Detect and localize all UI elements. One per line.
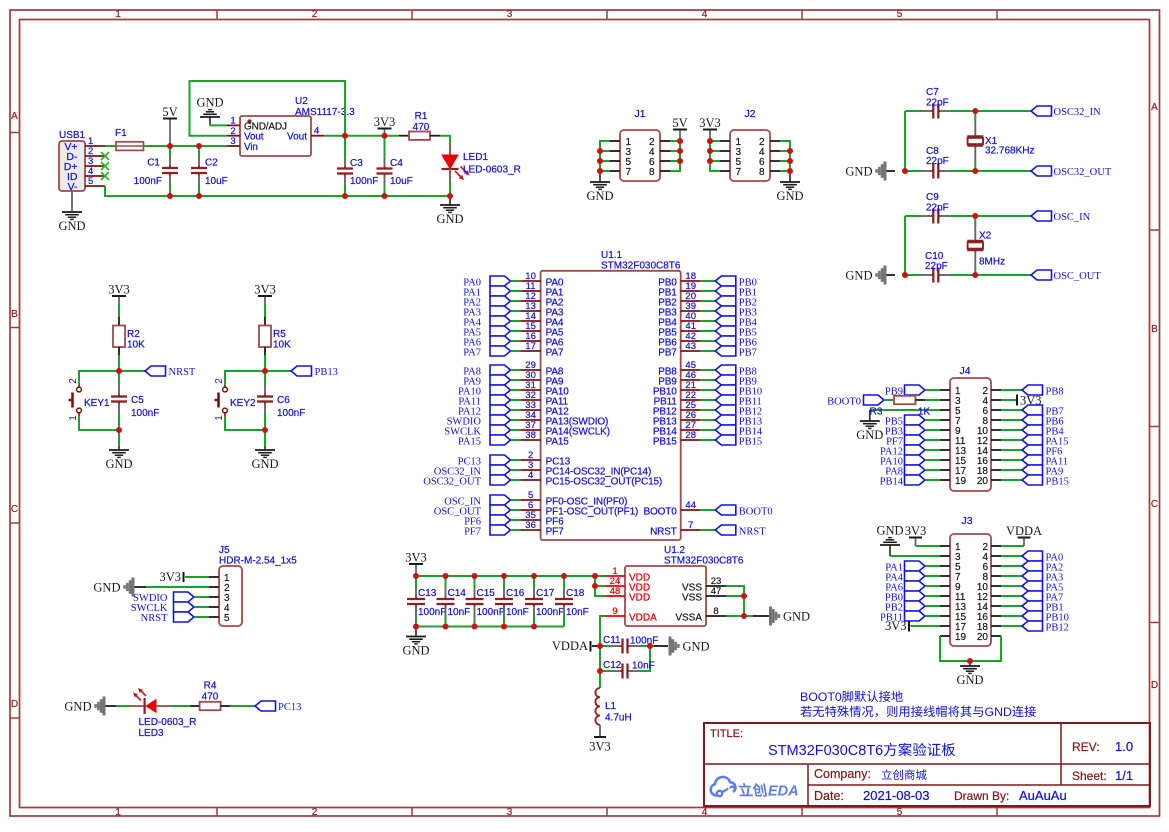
svg-text:R3: R3 <box>870 407 883 418</box>
svg-text:GND: GND <box>876 524 903 538</box>
svg-text:Vin: Vin <box>244 142 258 153</box>
svg-text:7: 7 <box>626 167 632 178</box>
svg-text:C4: C4 <box>390 158 403 169</box>
svg-text:32.768KHz: 32.768KHz <box>985 146 1034 157</box>
svg-text:10uF: 10uF <box>390 176 413 187</box>
svg-text:3V3: 3V3 <box>885 619 907 633</box>
svg-text:2: 2 <box>312 807 318 818</box>
svg-text:PB7: PB7 <box>739 348 757 359</box>
svg-text:3V3: 3V3 <box>254 283 276 297</box>
svg-text:NRST: NRST <box>169 367 196 378</box>
svg-text:2: 2 <box>312 9 318 20</box>
svg-text:1/1: 1/1 <box>1115 768 1133 783</box>
svg-text:10nF: 10nF <box>632 661 655 672</box>
svg-text:470: 470 <box>202 692 219 703</box>
svg-text:4.7uH: 4.7uH <box>605 713 632 724</box>
svg-text:22pF: 22pF <box>926 156 949 167</box>
svg-text:C13: C13 <box>418 588 437 599</box>
svg-text:1: 1 <box>115 807 121 818</box>
svg-text:GND: GND <box>985 705 1012 719</box>
svg-text:PA7: PA7 <box>463 348 481 359</box>
svg-text:J3: J3 <box>961 515 972 527</box>
svg-text:GND: GND <box>783 609 810 623</box>
svg-text:1: 1 <box>68 415 79 421</box>
svg-text:17: 17 <box>525 341 536 352</box>
svg-text:C12: C12 <box>603 660 622 671</box>
svg-text:GND: GND <box>58 219 85 233</box>
svg-text:44: 44 <box>685 500 696 511</box>
svg-text:C7: C7 <box>926 87 939 98</box>
svg-text:AMS1117-3.3: AMS1117-3.3 <box>295 107 355 118</box>
svg-text:USB1: USB1 <box>59 130 86 141</box>
svg-text:U1.2: U1.2 <box>664 545 686 556</box>
svg-text:VSSA: VSSA <box>675 612 702 623</box>
svg-text:J4: J4 <box>959 365 970 377</box>
svg-text:1: 1 <box>115 9 121 20</box>
svg-text:C5: C5 <box>131 395 144 406</box>
svg-text:10K: 10K <box>127 340 145 351</box>
svg-text:AuAuAu: AuAuAu <box>1019 788 1067 803</box>
svg-text:8: 8 <box>759 167 765 178</box>
svg-text:19: 19 <box>955 476 967 487</box>
svg-text:2021-08-03: 2021-08-03 <box>863 788 930 803</box>
svg-text:38: 38 <box>525 430 536 441</box>
svg-text:4: 4 <box>314 126 319 137</box>
svg-text:1: 1 <box>214 415 225 421</box>
svg-text:GND: GND <box>845 164 872 178</box>
svg-text:20: 20 <box>977 632 989 643</box>
svg-text:PC15-OSC32_OUT(PC15): PC15-OSC32_OUT(PC15) <box>546 476 662 487</box>
svg-text:4: 4 <box>702 9 708 20</box>
svg-text:19: 19 <box>955 632 967 643</box>
svg-text:Date:: Date: <box>814 789 844 803</box>
svg-text:C11: C11 <box>603 635 621 646</box>
svg-text:PA7: PA7 <box>546 347 564 358</box>
svg-text:A: A <box>11 111 18 122</box>
svg-text:LED1: LED1 <box>463 152 488 163</box>
svg-text:NRST: NRST <box>650 526 677 537</box>
svg-text:R4: R4 <box>204 681 217 692</box>
svg-text:J1: J1 <box>634 108 645 120</box>
svg-text:PA15: PA15 <box>458 437 481 448</box>
svg-text:3V3: 3V3 <box>1020 394 1042 408</box>
svg-text:X2: X2 <box>979 231 992 242</box>
svg-text:BOOT0: BOOT0 <box>800 690 842 704</box>
svg-text:2: 2 <box>68 378 79 384</box>
svg-text:100nF: 100nF <box>350 176 378 187</box>
svg-text:OSC_OUT: OSC_OUT <box>1054 271 1102 282</box>
svg-text:C9: C9 <box>926 192 939 203</box>
svg-text:A: A <box>1151 102 1158 113</box>
svg-text:VDDA: VDDA <box>1006 524 1042 538</box>
svg-text:BOOT0: BOOT0 <box>644 506 678 517</box>
svg-text:3V3: 3V3 <box>405 551 427 565</box>
svg-text:100nF: 100nF <box>536 607 564 618</box>
svg-text:C: C <box>11 504 18 515</box>
svg-text:GND: GND <box>105 457 132 471</box>
svg-text:VDDA: VDDA <box>552 639 588 653</box>
svg-text:OSC_IN: OSC_IN <box>1054 212 1091 223</box>
svg-text:LED3: LED3 <box>139 728 164 739</box>
svg-text:4: 4 <box>702 807 708 818</box>
svg-text:B: B <box>11 309 18 320</box>
svg-text:GND: GND <box>402 644 429 658</box>
svg-text:TITLE:: TITLE: <box>710 728 743 740</box>
svg-text:8: 8 <box>649 167 655 178</box>
svg-text:R2: R2 <box>127 329 140 340</box>
svg-text:C: C <box>1151 499 1158 510</box>
svg-text:22pF: 22pF <box>926 203 949 214</box>
svg-text:20: 20 <box>977 476 989 487</box>
svg-text:470: 470 <box>413 122 430 133</box>
svg-text:C17: C17 <box>536 588 555 599</box>
svg-text:PB15: PB15 <box>739 437 762 448</box>
svg-text:PB13: PB13 <box>315 367 338 378</box>
svg-text:C16: C16 <box>506 588 525 599</box>
svg-text:2: 2 <box>214 378 225 384</box>
svg-text:10nF: 10nF <box>448 607 471 618</box>
svg-text:5: 5 <box>897 807 903 818</box>
svg-text:100nF: 100nF <box>630 636 658 647</box>
svg-text:3V3: 3V3 <box>108 283 130 297</box>
svg-text:GND: GND <box>683 639 710 653</box>
svg-text:PB14: PB14 <box>880 477 904 488</box>
svg-text:3: 3 <box>507 807 513 818</box>
svg-text:GND: GND <box>64 699 91 713</box>
svg-text:5: 5 <box>897 9 903 20</box>
svg-text:L1: L1 <box>605 701 617 712</box>
svg-text:NRST: NRST <box>141 613 168 624</box>
svg-text:OSC32_IN: OSC32_IN <box>1054 107 1102 118</box>
svg-text:22pF: 22pF <box>925 261 948 272</box>
svg-text:C6: C6 <box>277 395 290 406</box>
svg-text:3V3: 3V3 <box>589 740 611 754</box>
svg-text:LED-0603_R: LED-0603_R <box>139 717 197 728</box>
svg-text:5V: 5V <box>162 105 177 119</box>
svg-text:5: 5 <box>224 613 230 624</box>
svg-text:J5: J5 <box>219 545 230 556</box>
svg-text:100nF: 100nF <box>477 607 505 618</box>
svg-text:KEY2: KEY2 <box>230 398 256 409</box>
svg-text:Drawn By:: Drawn By: <box>954 789 1009 803</box>
svg-text:GND: GND <box>856 428 883 442</box>
svg-text:Vout: Vout <box>287 132 307 143</box>
svg-text:NRST: NRST <box>739 527 766 538</box>
svg-text:100nF: 100nF <box>418 607 446 618</box>
svg-text:STM32F030C8T6: STM32F030C8T6 <box>664 556 744 567</box>
svg-text:3V3: 3V3 <box>159 570 181 584</box>
svg-text:PF7: PF7 <box>546 526 564 537</box>
svg-text:GND: GND <box>776 189 803 203</box>
svg-text:8MHz: 8MHz <box>979 257 1005 268</box>
svg-text:PA15: PA15 <box>546 436 570 447</box>
svg-text:7: 7 <box>688 520 693 531</box>
svg-text:100nF: 100nF <box>277 408 305 419</box>
svg-text:Company:: Company: <box>814 767 871 781</box>
svg-text:22pF: 22pF <box>926 98 949 109</box>
svg-text:HDR-M-2.54_1x5: HDR-M-2.54_1x5 <box>219 556 297 567</box>
svg-text:PB15: PB15 <box>653 436 677 447</box>
svg-text:KEY1: KEY1 <box>84 398 110 409</box>
svg-text:C14: C14 <box>448 588 467 599</box>
svg-text:28: 28 <box>685 430 696 441</box>
svg-text:R5: R5 <box>273 329 286 340</box>
svg-text:REV:: REV: <box>1072 740 1100 754</box>
svg-text:C1: C1 <box>147 158 160 169</box>
svg-text:C15: C15 <box>477 588 496 599</box>
svg-text:100nF: 100nF <box>134 176 162 187</box>
svg-text:GND: GND <box>956 673 983 687</box>
svg-text:48: 48 <box>610 586 621 597</box>
svg-text:LED-0603_R: LED-0603_R <box>463 165 521 176</box>
svg-text:Sheet:: Sheet: <box>1072 769 1107 783</box>
svg-text:3V3: 3V3 <box>905 524 927 538</box>
svg-text:VDDA: VDDA <box>629 612 657 623</box>
svg-text:3V3: 3V3 <box>699 116 721 130</box>
svg-text:10uF: 10uF <box>205 176 228 187</box>
svg-text:PF7: PF7 <box>464 527 481 538</box>
svg-text:3V3: 3V3 <box>374 115 396 129</box>
svg-text:EDA: EDA <box>768 784 799 800</box>
svg-text:PB7: PB7 <box>658 347 677 358</box>
svg-text:36: 36 <box>525 520 536 531</box>
svg-text:PB15: PB15 <box>1046 477 1069 488</box>
svg-text:100nF: 100nF <box>131 408 159 419</box>
svg-text:1.0: 1.0 <box>1115 739 1133 754</box>
svg-text:C2: C2 <box>205 158 218 169</box>
svg-text:4: 4 <box>528 470 533 481</box>
svg-text:U1.1: U1.1 <box>601 250 623 261</box>
svg-text:VSS: VSS <box>682 592 702 603</box>
svg-text:7: 7 <box>736 167 742 178</box>
svg-text:GND: GND <box>93 580 120 594</box>
svg-text:OSC32_OUT: OSC32_OUT <box>423 477 481 488</box>
svg-text:D: D <box>1151 680 1158 691</box>
svg-text:43: 43 <box>685 341 696 352</box>
svg-text:B: B <box>1151 324 1158 335</box>
svg-text:BOOT0: BOOT0 <box>739 507 773 518</box>
svg-text:GND: GND <box>586 189 613 203</box>
svg-text:3: 3 <box>230 136 235 147</box>
svg-text:PC13: PC13 <box>278 702 301 713</box>
svg-text:C3: C3 <box>350 158 363 169</box>
svg-text:9: 9 <box>612 606 617 617</box>
svg-text:J2: J2 <box>744 108 755 120</box>
svg-text:10nF: 10nF <box>566 607 589 618</box>
svg-text:OSC32_OUT: OSC32_OUT <box>1054 167 1112 178</box>
svg-text:10nF: 10nF <box>506 607 529 618</box>
svg-text:8: 8 <box>713 606 718 617</box>
svg-text:GND: GND <box>251 457 278 471</box>
svg-text:PB8: PB8 <box>1046 387 1064 398</box>
svg-text:C18: C18 <box>566 588 585 599</box>
svg-text:3: 3 <box>507 9 513 20</box>
svg-text:VDD: VDD <box>629 592 650 603</box>
svg-text:F1: F1 <box>115 128 127 139</box>
svg-text:PB12: PB12 <box>1046 623 1069 634</box>
svg-text:47: 47 <box>711 586 722 597</box>
svg-text:GND: GND <box>436 212 463 226</box>
svg-text:R1: R1 <box>415 111 428 122</box>
svg-text:U2: U2 <box>295 96 308 107</box>
svg-text:STM32F030C8T6: STM32F030C8T6 <box>768 743 883 759</box>
svg-text:GND: GND <box>196 96 223 110</box>
svg-text:5: 5 <box>88 176 93 187</box>
svg-text:5V: 5V <box>672 116 687 130</box>
svg-text:STM32F030C8T6: STM32F030C8T6 <box>601 261 681 272</box>
svg-text:10K: 10K <box>273 340 291 351</box>
svg-text:BOOT0: BOOT0 <box>827 397 861 408</box>
svg-text:GND: GND <box>845 268 872 282</box>
svg-text:D: D <box>11 699 18 710</box>
